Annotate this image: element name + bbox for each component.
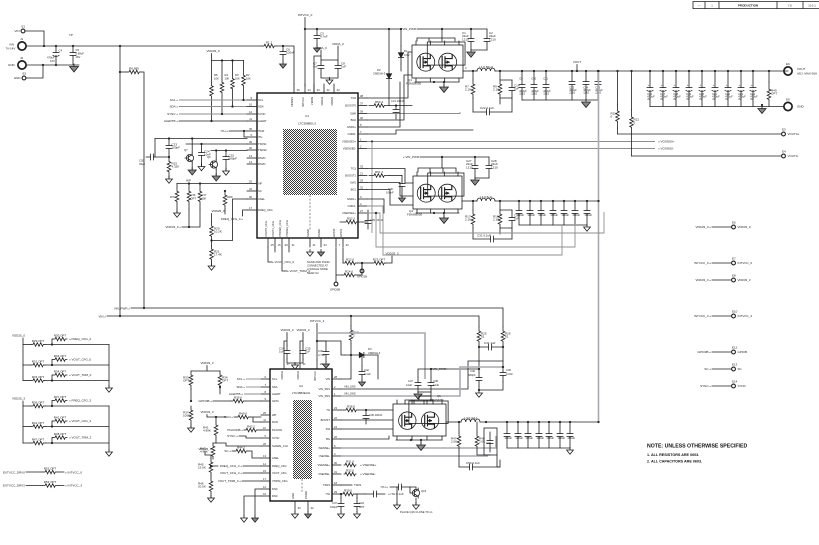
svg-text:GPIO0: GPIO0 [332, 228, 336, 237]
wire TSNS0 row [211, 150, 247, 152]
svg-text:24: 24 [308, 88, 311, 92]
wire stage1 SW out [463, 70, 477, 72]
capacitor C50 0.1uF [459, 464, 500, 470]
svg-text:VIN_SNS: VIN_SNS [344, 392, 356, 396]
junction bank3 cap 1 [517, 421, 519, 423]
junction pullup rail b [231, 59, 233, 61]
ground VDDA [326, 78, 333, 85]
svg-text:C43: C43 [359, 501, 364, 505]
svg-text:R52 OPT: R52 OPT [44, 466, 57, 470]
connector E3 VOUT0+ [782, 132, 786, 136]
svg-text:R50 4: R50 4 [375, 100, 383, 104]
svg-text:25: 25 [263, 411, 266, 415]
svg-text:GPIO0B «: GPIO0B « [697, 350, 711, 354]
wire SCL u2 [246, 378, 261, 380]
U2 pin TG right stub [332, 409, 341, 411]
svg-text:VDD33_3 «: VDD33_3 « [695, 278, 711, 282]
svg-text:» VSENSE+: » VSENSE+ [360, 463, 377, 467]
junction R47 sw [458, 421, 460, 423]
junction bank3 cap 4 [548, 421, 550, 423]
svg-text:VOUT_CFG: VOUT_CFG [272, 471, 287, 475]
diode D3 CMDSH-3 [345, 352, 378, 357]
svg-text:VOUT: VOUT [797, 67, 806, 71]
svg-text:100uF: 100uF [516, 213, 524, 217]
svg-text:13: 13 [249, 154, 252, 158]
ground C42 [359, 380, 366, 387]
wire J2 gnd rail [27, 64, 79, 66]
junction vsense1 tap [375, 212, 377, 214]
resistor R42 2 [244, 428, 258, 432]
capacitor C5 0.68uF [70, 46, 76, 65]
wire stage2 drain drop [418, 157, 456, 172]
wire rowB cont FREQ_CFG_3 [45, 405, 109, 407]
svg-text:26: 26 [334, 435, 337, 439]
wire r16 bottoms [182, 209, 200, 227]
svg-text:SHARE_CLK: SHARE_CLK [272, 444, 288, 448]
junction E1 bus [43, 45, 45, 47]
junction vout bank cap 2 [675, 70, 677, 72]
capacitor vout bank C17 470uF [660, 71, 666, 107]
grey vout bus vertical [598, 71, 600, 422]
resistor R42 OPT rowB [53, 419, 67, 423]
U1 pin VDD33 top stub [323, 84, 325, 93]
svg-text:C46: C46 [470, 369, 475, 373]
junction src2 rail b [443, 212, 445, 214]
U2 pin VDD33 top stub [299, 360, 301, 369]
capacitor C34 1uF [284, 345, 290, 359]
wire stage2 SW out [462, 200, 477, 202]
svg-text:100uF: 100uF [504, 436, 512, 440]
wire bank2 bottom rail [519, 224, 587, 226]
svg-text:12: 12 [263, 485, 266, 489]
capacitor vout bank C24 470uF [750, 71, 756, 107]
wire L2 to bus [495, 200, 599, 202]
svg-text:» VOSNS0-: » VOSNS0- [658, 147, 674, 151]
wire VIN rail [107, 316, 479, 327]
junction bank1b cap 0 top [571, 70, 573, 72]
svg-text:VDD25_0: VDD25_0 [12, 334, 25, 338]
ground C44 [394, 503, 401, 510]
svg-text:3.0nF: 3.0nF [506, 372, 513, 376]
svg-text:L3 0.3uH: L3 0.3uH [464, 416, 476, 420]
svg-text:10: 10 [263, 426, 266, 430]
ground R46 [208, 496, 215, 503]
wire stage3 sense rails [459, 450, 490, 467]
wire SDA [179, 106, 247, 108]
ground U1 PGND [318, 250, 325, 257]
wire q7 collector [191, 139, 193, 154]
svg-text:ITH: ITH [258, 135, 262, 139]
wire BG0 route [367, 75, 412, 120]
ground Q16 [413, 503, 420, 510]
svg-text:1210: 1210 [531, 92, 537, 96]
connector E13 SC [732, 367, 736, 371]
svg-text:GND0+: GND0+ [347, 125, 356, 129]
wire GPIO0B line [213, 400, 261, 402]
wire SCL [179, 99, 247, 101]
U1 pin TSNS0 left stub [247, 149, 257, 151]
resistor R18 2.1K [498, 210, 502, 228]
svg-text:VDD25_3: VDD25_3 [198, 447, 211, 451]
junction VIN vertical [119, 45, 121, 47]
svg-text:SC «: SC « [704, 367, 711, 371]
U1 pin GND0- right stub [358, 133, 367, 135]
capacitor vout bank C18 470uF [673, 71, 679, 107]
junction boost C21 [395, 104, 397, 106]
svg-text:54: 54 [324, 243, 327, 247]
svg-text:VDDA_0: VDDA_0 [315, 46, 327, 50]
svg-text:1210: 1210 [462, 37, 469, 41]
svg-text:15: 15 [263, 469, 266, 473]
ground stage2 source [440, 216, 449, 224]
ground stage2 caps [471, 178, 480, 186]
capacitor C41 1uF [479, 344, 503, 350]
svg-text:22: 22 [334, 416, 337, 420]
svg-text:BOOST: BOOST [321, 418, 331, 422]
svg-text:10K: 10K [235, 76, 240, 80]
wire TSNS stub [341, 484, 352, 486]
capacitor C7 1uF [318, 60, 324, 74]
wire SYNC to connector [712, 385, 731, 387]
svg-text:BG: BG [326, 437, 330, 441]
wire SC line [232, 451, 261, 458]
svg-text:ASEL: ASEL [258, 197, 265, 201]
svg-text:BOOST1: BOOST1 [345, 174, 356, 178]
svg-text:E1: E1 [22, 25, 26, 29]
transistor Q6 [209, 160, 218, 170]
svg-text:C36 100nF: C36 100nF [369, 413, 383, 417]
ground C40 [323, 362, 330, 369]
svg-text:36: 36 [360, 116, 363, 120]
svg-text:100K: 100K [183, 414, 190, 418]
svg-text:2.1K: 2.1K [493, 88, 499, 92]
wire bank3 bottom rail [507, 447, 570, 449]
wire u2 pullup rail [191, 366, 220, 372]
connector E14 SYNC [732, 384, 736, 388]
ground vout bank [758, 106, 766, 114]
transistor Q5 FDMS8050 pair [393, 400, 448, 440]
wire R6 left [120, 71, 127, 73]
svg-text:1uF: 1uF [305, 350, 310, 354]
svg-text:100uF: 100uF [550, 213, 558, 217]
resistor R1 2 [262, 44, 276, 48]
ground C20b [399, 196, 406, 203]
wire rowA cont VOUT_TRM_0 [45, 380, 109, 382]
transistor Q16 [411, 488, 420, 498]
svg-text:Q6: Q6 [207, 155, 211, 159]
capacitor bank1b C15 100uF [595, 71, 601, 100]
svg-text:100pF: 100pF [330, 505, 338, 509]
wire TSNS1 row [186, 143, 247, 145]
svg-text:SYNC «: SYNC « [227, 434, 238, 438]
U2 pin BOOST right stub [332, 419, 341, 421]
wire GPIO1B drop [361, 263, 363, 268]
inductor L2 0.5uH [477, 198, 495, 201]
svg-text:23: 23 [317, 88, 320, 92]
capacitor C36 100nF [363, 410, 369, 424]
svg-text:14: 14 [263, 462, 266, 466]
junction ith pair [243, 130, 245, 132]
svg-text:VDD33: VDD33 [280, 371, 284, 380]
capacitor bank2 C36 100uF [561, 201, 567, 225]
svg-text:INTVCC: INTVCC [301, 97, 305, 107]
svg-text:R29 OPT: R29 OPT [32, 339, 45, 343]
svg-text:R40 0: R40 0 [239, 411, 247, 415]
U2 pin SYNC left stub [261, 437, 270, 439]
U1 pin VOUT1_CFG bottom stub [274, 238, 276, 247]
wire vdd33 run drop [206, 415, 208, 418]
junction R7 sw [472, 70, 474, 72]
ground C6 [280, 62, 287, 69]
junction divider [210, 239, 212, 241]
svg-text:4V: 4V [738, 97, 741, 101]
svg-text:E14: E14 [732, 380, 738, 384]
capacitor C21 100nF [393, 106, 399, 120]
connector J1 VIN [18, 42, 26, 50]
svg-text:10K: 10K [246, 76, 251, 80]
resistor R3 10K [231, 61, 235, 107]
U1 pin SYNC left stub [247, 113, 257, 115]
junction R45 freq [210, 465, 212, 467]
connector E9 GND out [784, 102, 792, 110]
U2 pin VSENSE- right stub [332, 473, 341, 475]
U2 pin WP left stub [261, 414, 270, 416]
svg-text:FREQ_CFG_3 «: FREQ_CFG_3 « [220, 464, 243, 468]
junction vout bank cap 1 [662, 70, 664, 72]
U1 pin SCL left stub [247, 99, 257, 101]
svg-text:Y.S.: Y.S. [788, 3, 793, 7]
svg-text:GND1-: GND1- [348, 204, 356, 208]
junction C4 top [55, 45, 57, 47]
svg-text:2.0K: 2.0K [451, 440, 457, 444]
svg-text:VDD33_3: VDD33_3 [200, 361, 213, 365]
junction L3 bus [597, 421, 599, 423]
junction pullup rail a [221, 59, 223, 61]
capacitor C22 0.1uF [473, 109, 512, 115]
ground C24 [198, 164, 205, 171]
wire R12 to vosns [631, 134, 633, 156]
svg-text:VDD33: VDD33 [320, 97, 324, 106]
resistor R12 0 [630, 110, 634, 134]
wire VDD33 caps drops [284, 333, 303, 361]
wire R41 bottom pgood [215, 438, 217, 443]
junction vout bus top [597, 70, 599, 72]
junction bank2 cap 6 [586, 200, 588, 202]
wire GPIO0B to connector [712, 351, 731, 353]
svg-text:OPT: OPT [191, 196, 197, 200]
U1 pin VSENSE0+ right stub [358, 141, 367, 143]
svg-text:SCL «: SCL « [170, 98, 179, 102]
resistor R30 OPT rowA [53, 337, 67, 341]
junction bank1 cap 2 top [545, 70, 547, 72]
capacitor C45 3.0nF [500, 367, 506, 382]
capacitor C44 ith [390, 484, 410, 490]
svg-text:SC: SC [258, 189, 262, 193]
wire ITH u1 line [229, 131, 247, 137]
capacitor bank1 C10 100uF [531, 71, 537, 100]
svg-text:C37: C37 [332, 501, 337, 505]
junction bank1 cap 0 top [521, 70, 523, 72]
U2 pin ISENSE+ right stub [332, 447, 341, 449]
wire extvcc3 [26, 485, 64, 487]
junction stage3 filt gnd [478, 389, 480, 391]
wire R6 to VIN_PWR drop [141, 72, 144, 308]
capacitor C30 1uF [509, 210, 515, 228]
wire rowA branch FREQ_CFG_0 [52, 339, 53, 345]
svg-text:R30 OPT: R30 OPT [54, 333, 67, 337]
svg-text:C29 100nF: C29 100nF [370, 218, 384, 222]
svg-text:R42 2: R42 2 [247, 424, 255, 428]
resistor R51 4 [369, 174, 389, 178]
svg-text:INTVCC_0 «: INTVCC_0 « [694, 261, 711, 265]
svg-text:RUN: RUN [272, 420, 278, 424]
svg-text:4V: 4V [647, 97, 650, 101]
svg-text:ITH «: ITH « [221, 129, 229, 133]
wire C45 bottom rail [479, 382, 503, 390]
wire rowB main VOUT_TRM_3 [23, 442, 31, 444]
grey intvcc3 route [317, 333, 425, 379]
svg-text:R5: R5 [214, 73, 218, 77]
svg-text:C42: C42 [364, 368, 369, 372]
U1 pin SDA left stub [247, 106, 257, 108]
svg-text:» VOUT_CFG_0: » VOUT_CFG_0 [272, 260, 295, 264]
resistor R31 OPT rowA [31, 363, 45, 367]
svg-text:INTVCC: INTVCC [313, 371, 317, 381]
svg-text:R33 OPT: R33 OPT [32, 375, 45, 379]
junction rowB FREQ_CFG_3 [51, 405, 53, 407]
U1 pin SGND bottom stub [309, 238, 311, 247]
svg-text:ALERT: ALERT [272, 392, 281, 396]
U1 pin VDD25 top stub [333, 84, 335, 93]
wire VOUT_TRIM_3 line [242, 480, 261, 482]
ground R70 [174, 211, 181, 218]
svg-text:R47 OPT: R47 OPT [32, 437, 45, 441]
wire VIN_PWR rail [131, 308, 503, 327]
svg-text:R53 OPT: R53 OPT [44, 480, 57, 484]
junction vout bank cap 4 [701, 70, 703, 72]
wire BG route u2 [341, 436, 389, 439]
capacitor vout bank C20 470uF [699, 71, 705, 107]
svg-text:27: 27 [360, 209, 363, 213]
wire vdd25 div top [211, 214, 213, 223]
wire vdd25_0 left rail [22, 338, 24, 381]
wire PGOOD line [244, 429, 261, 431]
svg-text:29: 29 [334, 490, 337, 494]
svg-text:TSNS: TSNS [354, 483, 361, 487]
svg-text:1210: 1210 [491, 165, 498, 169]
svg-text:4.32K: 4.32K [172, 165, 180, 169]
wire rowB right rail [108, 406, 110, 450]
wire R11 to vosns [617, 128, 619, 134]
resistor R24 0 [342, 273, 356, 277]
wire VOUT0_CFG bend [268, 247, 272, 262]
junction VIN at drop [119, 315, 121, 317]
junction R17 sw [472, 200, 474, 202]
wire INTVCC_0 to connector [712, 262, 731, 264]
svg-text:C48: C48 [433, 379, 438, 383]
svg-text:SCL: SCL [258, 98, 264, 102]
wire r70 gnd [176, 209, 178, 213]
wire stage3 SW out [446, 421, 461, 423]
junction C5 top [72, 45, 74, 47]
svg-text:R1 2: R1 2 [266, 40, 273, 44]
U2 pin SCL left stub [261, 378, 270, 380]
wire GND0b route [367, 130, 473, 134]
junction src2 rail a [433, 212, 435, 214]
resistor R45 15.0K [209, 459, 213, 475]
svg-text:C47: C47 [408, 379, 413, 383]
wire R48 drop [476, 422, 478, 432]
resistor R31 0 [344, 463, 356, 467]
junction R49 top [768, 70, 770, 72]
svg-text:100uF: 100uF [525, 436, 533, 440]
junction C41 left [478, 346, 480, 348]
resistor R5 10K [210, 61, 214, 122]
svg-text:VDD25_3: VDD25_3 [12, 397, 25, 401]
junction INTVCC rail [304, 28, 306, 30]
svg-text:ALERTB «: ALERTB « [164, 119, 178, 123]
svg-text:C31 0.1uF: C31 0.1uF [477, 234, 491, 238]
svg-text:4V: 4V [725, 97, 728, 101]
wire D3 right down [377, 355, 379, 379]
wire SYNC u2 line [239, 436, 261, 438]
wire SW1 route [367, 183, 413, 197]
svg-text:R48 OPT: R48 OPT [54, 432, 67, 436]
resistor R33 OPT [189, 371, 193, 389]
U2 pin VSENSE+ right stub [332, 464, 341, 466]
wire R41 top [207, 417, 226, 422]
svg-text:SCL «: SCL « [237, 377, 246, 381]
svg-text:CMDSH-3: CMDSH-3 [373, 72, 386, 76]
svg-text:10K: 10K [202, 196, 207, 200]
ground C37 [338, 512, 345, 519]
junction L3 out [485, 421, 487, 423]
U2 pin DNC left stub [261, 488, 270, 490]
wire R7 drop [472, 71, 474, 80]
resistor R44 2 [234, 449, 248, 453]
svg-text:100uF: 100uF [538, 213, 546, 217]
capacitor C29 100nF [365, 215, 371, 229]
wire R11 drop [617, 71, 619, 104]
svg-text:GND: GND [797, 105, 805, 109]
wire q16 wires [410, 487, 416, 489]
capacitor bank3 C51 100uF [504, 422, 510, 448]
resistor R41 OPT rowB [31, 425, 45, 429]
svg-text:J1: J1 [20, 37, 24, 41]
capacitor C3 4.7uF [314, 29, 320, 46]
grey sense loop stage2 a [367, 212, 604, 233]
junction c24 row [200, 143, 202, 145]
wire SYNC [179, 113, 247, 115]
svg-text:13: 13 [263, 454, 266, 458]
svg-text:39: 39 [249, 140, 252, 144]
resistor R34 OPT [218, 371, 222, 389]
svg-text:VOUT_CFG_3 «: VOUT_CFG_3 « [220, 471, 243, 475]
resistor R34 OPT rowA [53, 373, 67, 377]
svg-text:CONNECTED AT: CONNECTED AT [307, 264, 328, 268]
svg-text:WP: WP [186, 179, 191, 183]
svg-text:» VOUT_CFG_0: » VOUT_CFG_0 [69, 358, 92, 362]
svg-text:32: 32 [346, 243, 349, 247]
junction src3 rail a [410, 439, 412, 441]
wire rowA cont VOUT_CFG_0 [45, 364, 109, 366]
wire E2 to gnd rail [26, 65, 43, 78]
svg-text:GPIO0B «: GPIO0B « [198, 399, 212, 403]
ground U1 SGND [307, 250, 314, 257]
wire C22 right [511, 98, 513, 112]
ground C3 [314, 46, 321, 53]
ground input filter [70, 64, 79, 72]
